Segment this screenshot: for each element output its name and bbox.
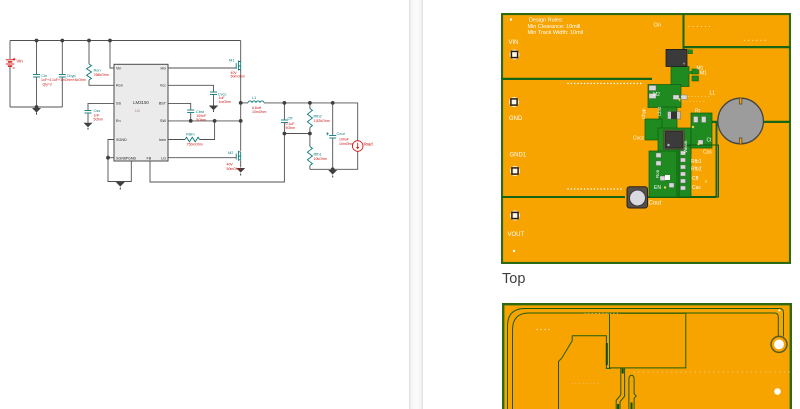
svg-text:U1: U1 [135, 108, 141, 113]
svg-text:M1: M1 [229, 58, 234, 63]
svg-text:Qty=2: Qty=2 [43, 83, 52, 87]
svg-text:Vcc: Vcc [160, 84, 166, 88]
svg-text:M2: M2 [228, 150, 233, 155]
svg-text:Ron: Ron [94, 68, 101, 73]
svg-text:Ron: Ron [655, 169, 660, 178]
svg-text:5Ohm: 5Ohm [196, 118, 206, 122]
svg-text:5Ohm: 5Ohm [94, 118, 104, 122]
svg-text:Design Rules:: Design Rules: [529, 18, 564, 24]
svg-text:Vinsm: Vinsm [683, 140, 688, 153]
svg-text:L1: L1 [710, 91, 716, 97]
svg-text:M1: M1 [700, 71, 707, 77]
svg-text:EN: EN [654, 185, 661, 191]
svg-text:Cac: Cac [692, 185, 701, 191]
svg-text:5Ohm: 5Ohm [286, 126, 296, 130]
svg-text:Cbst: Cbst [657, 106, 662, 116]
svg-text:M2: M2 [653, 92, 660, 98]
svg-text:Css: Css [94, 108, 101, 113]
svg-text:GND1: GND1 [510, 153, 527, 159]
svg-text:En: En [116, 119, 121, 123]
svg-text:PGND: PGND [126, 157, 137, 161]
svg-text:HG: HG [160, 66, 166, 70]
svg-text:1mOhm: 1mOhm [219, 100, 232, 104]
svg-text:SS: SS [116, 102, 121, 106]
svg-text:SGND: SGND [116, 138, 127, 142]
svg-text:FB: FB [147, 157, 152, 161]
svg-text:Rfb2: Rfb2 [314, 114, 322, 119]
svg-text:VOUT: VOUT [508, 232, 525, 238]
svg-text:L1: L1 [252, 95, 256, 100]
svg-text:Cout: Cout [337, 131, 346, 136]
svg-text:10mOhm: 10mOhm [252, 110, 266, 114]
svg-text:Rt: Rt [695, 109, 701, 115]
svg-text:Cbyp: Cbyp [641, 108, 646, 119]
svg-text:1.82kOhm: 1.82kOhm [314, 119, 330, 123]
svg-text:50mOhm: 50mOhm [231, 75, 245, 79]
svg-text:Vin: Vin [16, 59, 23, 64]
svg-text:10kOhm: 10kOhm [314, 157, 327, 161]
svg-text:Min Track Width: 10mil: Min Track Width: 10mil [528, 30, 584, 36]
svg-text:GND: GND [509, 116, 523, 122]
svg-text:1uF+4.1uF+1mOhm+4kOhm: 1uF+4.1uF+1mOhm+4kOhm [41, 78, 86, 82]
svg-text:Css: Css [703, 150, 712, 156]
svg-text:Rfb1: Rfb1 [314, 152, 322, 157]
svg-text:Min Clearance: 10mill: Min Clearance: 10mill [528, 24, 581, 30]
svg-text:768kOhm: 768kOhm [94, 73, 109, 77]
svg-text:Cvcc: Cvcc [633, 136, 645, 142]
svg-text:SW: SW [160, 119, 166, 123]
svg-text:50mOhm: 50mOhm [227, 167, 241, 171]
svg-text:Ron: Ron [116, 84, 123, 88]
svg-text:Cin: Cin [654, 23, 662, 29]
svg-text:10mOhm: 10mOhm [339, 142, 353, 146]
svg-text:BST: BST [159, 102, 167, 106]
svg-text:LM3150: LM3150 [133, 100, 149, 105]
svg-text:Cff: Cff [288, 115, 294, 120]
svg-text:Ct: Ct [707, 138, 713, 144]
svg-text:Rfb1: Rfb1 [691, 159, 702, 165]
svg-text:Vin: Vin [116, 66, 121, 70]
svg-text:750mOhm: 750mOhm [187, 143, 203, 147]
svg-text:Rilim: Rilim [186, 132, 195, 137]
svg-text:Cff: Cff [692, 176, 699, 182]
svg-text:Isen: Isen [159, 138, 166, 142]
svg-text:Rfb2: Rfb2 [691, 167, 702, 173]
svg-text:Cout: Cout [649, 200, 662, 206]
svg-text:LG: LG [161, 157, 166, 161]
svg-text:Iload: Iload [364, 142, 374, 147]
svg-text:VIN: VIN [509, 40, 519, 46]
